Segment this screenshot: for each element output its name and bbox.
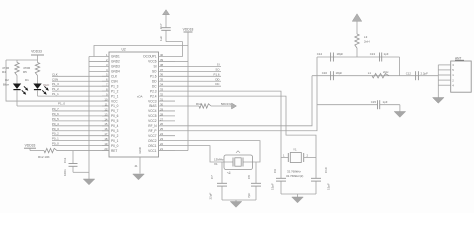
svg-text:P0_4: P0_4 <box>52 122 59 126</box>
wire RF row2 <box>312 75 438 77</box>
svg-text:P1.6: P1.6 <box>150 75 157 79</box>
svg-text:25: 25 <box>160 127 164 131</box>
svg-text:VDD18: VDD18 <box>183 28 194 32</box>
svg-text:VCC: VCC <box>111 99 118 103</box>
svg-text:P1_3: P1_3 <box>52 82 59 86</box>
svg-text:100n: 100n <box>63 169 67 176</box>
svg-text:VCC7: VCC7 <box>148 134 157 138</box>
wire P1_3 <box>52 85 109 87</box>
inductor L1 2nH <box>372 74 389 78</box>
capacitor C15 1pF <box>377 100 379 109</box>
svg-text:GND4: GND4 <box>111 70 120 74</box>
svg-text:11: 11 <box>105 102 108 106</box>
wire pin21 VCC1 to VDD18 rail <box>175 150 188 152</box>
svg-text:VCC5: VCC5 <box>148 114 157 118</box>
capacitor C11 <box>72 151 74 164</box>
svg-text:28: 28 <box>160 112 164 116</box>
resistor R5 470R <box>37 60 39 63</box>
svg-text:P0_2: P0_2 <box>52 132 59 136</box>
svg-text:SI: SI <box>217 62 220 66</box>
capacitor C14 18pF <box>330 53 332 62</box>
wire VDD33 branch <box>6 59 38 61</box>
svg-text:P2.3: P2.3 <box>150 89 157 93</box>
svg-text:RF_N: RF_N <box>148 124 157 128</box>
wire DC <box>175 85 221 87</box>
svg-text:C9: C9 <box>273 169 277 173</box>
svg-text:40: 40 <box>160 53 164 57</box>
svg-text:C13: C13 <box>370 52 376 56</box>
svg-text:P1.6: P1.6 <box>214 72 220 76</box>
svg-text:2nH: 2nH <box>364 40 370 44</box>
svg-text:P0_3: P0_3 <box>52 127 59 131</box>
svg-text:VCC3: VCC3 <box>148 99 157 103</box>
svg-text:26: 26 <box>160 122 164 126</box>
svg-text:P1_2: P1_2 <box>111 89 119 93</box>
wire OSC2 to 13MHz right <box>175 141 260 162</box>
svg-text:OSC2: OSC2 <box>148 139 157 143</box>
svg-text:P0_3: P0_3 <box>111 129 119 133</box>
resistor R4 470R <box>16 60 18 63</box>
ground (13MHz) <box>230 202 242 208</box>
wire RET row <box>30 150 44 152</box>
svg-text:27: 27 <box>160 117 164 121</box>
svg-text:DD: DD <box>152 79 157 83</box>
ground (bottom-left) <box>83 179 95 185</box>
svg-text:GND3: GND3 <box>111 65 120 69</box>
svg-text:P0_6: P0_6 <box>52 112 59 116</box>
svg-text:C10: C10 <box>324 167 328 173</box>
net port arrow (BIAS) <box>232 103 237 109</box>
wire RF_N to matching row2 <box>175 76 312 126</box>
svg-text:18pF: 18pF <box>337 52 344 56</box>
svg-text:P0_5: P0_5 <box>111 119 119 123</box>
IC U2 right pin stubs <box>159 150 176 152</box>
svg-text:33: 33 <box>160 88 164 92</box>
svg-text:15: 15 <box>104 122 108 126</box>
wire SI <box>175 65 221 67</box>
svg-text:L3: L3 <box>364 35 368 39</box>
svg-text:P1_0: P1_0 <box>58 102 65 106</box>
svg-text:CLK: CLK <box>52 72 58 76</box>
wire CLK <box>52 75 109 77</box>
wire pin39 to VDD18 <box>175 60 188 62</box>
svg-text:OSC1: OSC1 <box>148 144 157 148</box>
svg-text:2nH: 2nH <box>383 70 388 74</box>
svg-text:P0_0: P0_0 <box>111 144 119 148</box>
wire 32k gnd rail <box>281 193 316 195</box>
svg-text:P0_2: P0_2 <box>111 134 119 138</box>
svg-text:32: 32 <box>160 93 164 97</box>
svg-text:14: 14 <box>104 117 108 121</box>
svg-text:19: 19 <box>104 142 108 146</box>
svg-text:2.2pF: 2.2pF <box>421 72 429 76</box>
svg-text:16: 16 <box>104 127 108 131</box>
svg-text:P0_1: P0_1 <box>111 139 119 143</box>
ground (32k) <box>292 197 304 203</box>
wire P2.3 to 32k crystal left <box>175 91 281 178</box>
wire VCC rail from VDD33 to pin10 <box>6 60 109 101</box>
svg-text:18: 18 <box>104 137 108 141</box>
svg-text:P0_7: P0_7 <box>111 109 119 113</box>
svg-text:P1_0: P1_0 <box>111 104 119 108</box>
capacitor C7 22pF <box>221 162 223 183</box>
wire OSC1 to 13MHz left <box>175 146 233 162</box>
svg-text:CSN: CSN <box>111 79 118 83</box>
svg-text:xOA: xOA <box>137 94 143 98</box>
svg-text:Y1: Y1 <box>293 148 297 152</box>
capacitor C10 15pF <box>311 177 321 179</box>
ground (ANT) <box>433 98 445 104</box>
svg-text:10: 10 <box>104 97 108 101</box>
svg-text:32.768kHz: 32.768kHz <box>287 169 301 173</box>
wire DD <box>175 80 221 82</box>
wire 13MHz gnd rail <box>222 199 256 201</box>
capacitor C17 1uF <box>165 30 167 41</box>
svg-text:1pF: 1pF <box>384 52 389 56</box>
wire RF_P to matching row1 <box>175 57 317 131</box>
svg-text:56K/1%: 56K/1% <box>221 102 232 106</box>
svg-text:36: 36 <box>160 73 164 77</box>
svg-text:C7: C7 <box>210 175 214 179</box>
svg-text:30: 30 <box>160 102 164 106</box>
svg-text:C17: C17 <box>159 23 163 29</box>
svg-text:U2: U2 <box>122 48 126 52</box>
svg-text:24: 24 <box>160 132 164 136</box>
wires P0_7..P0_0 <box>52 110 109 112</box>
svg-text:P0_6: P0_6 <box>111 114 119 118</box>
svg-text:C16: C16 <box>322 71 328 75</box>
capacitor C13 1pF <box>379 53 381 62</box>
wire CSN <box>52 80 109 82</box>
crystal Y1 32.768kHz <box>281 157 288 159</box>
wire RF row1 <box>317 56 400 58</box>
svg-text:17: 17 <box>104 132 108 136</box>
wire P1.6 <box>175 75 221 77</box>
svg-text:22: 22 <box>160 142 164 146</box>
wire VDD18 to pin1 rail <box>94 46 188 57</box>
ground (IC pad) <box>133 174 145 180</box>
wire GND bus left <box>88 57 90 180</box>
svg-text:DC: DC <box>152 84 157 88</box>
svg-text:38: 38 <box>160 63 164 67</box>
svg-text:P0_4: P0_4 <box>111 124 119 128</box>
svg-text:31: 31 <box>160 97 164 101</box>
svg-text:1pF: 1pF <box>383 100 388 104</box>
svg-text:R11: R11 <box>196 102 201 106</box>
svg-text:C14: C14 <box>317 52 323 56</box>
wire C15 shunt row <box>317 104 377 106</box>
svg-text:GND: GND <box>138 147 142 153</box>
svg-text:37: 37 <box>160 68 164 72</box>
capacitor C9 15pF <box>276 177 286 179</box>
svg-text:SO: SO <box>152 70 157 74</box>
svg-text:13: 13 <box>104 112 108 116</box>
wire C15 to ground <box>399 105 401 112</box>
svg-text:1uF: 1uF <box>159 36 163 41</box>
wire DCOUPL to C17 <box>166 42 182 57</box>
wire D2 to P1_0 <box>16 90 18 106</box>
IC bottom pad pin 41 <box>139 157 141 174</box>
svg-text:18pF: 18pF <box>336 71 343 75</box>
wire ANT ground collector <box>437 65 439 98</box>
svg-text:X1: X1 <box>214 162 218 166</box>
svg-text:P0_0: P0_0 <box>52 142 59 146</box>
svg-text:SI: SI <box>154 65 157 69</box>
svg-text:15pF: 15pF <box>271 183 275 190</box>
svg-text:RED: RED <box>43 83 50 87</box>
crystal X1 13MHz <box>224 155 253 170</box>
svg-text:VCC4: VCC4 <box>148 109 157 113</box>
svg-text:13MHz: 13MHz <box>214 158 224 162</box>
svg-text:P2.4: P2.4 <box>150 94 157 98</box>
svg-text:BIAS: BIAS <box>149 104 156 108</box>
wire VDD18 rail <box>187 32 189 151</box>
capacitor C12 2.2pF <box>415 71 417 80</box>
svg-text:P1_1: P1_1 <box>52 92 59 96</box>
svg-text:P0_7: P0_7 <box>52 107 59 111</box>
svg-text:C8: C8 <box>247 175 251 179</box>
svg-text:D1: D1 <box>25 78 29 82</box>
resistor R11 56K/1% <box>175 105 199 107</box>
svg-text:DC: DC <box>215 82 219 86</box>
svg-text:32.768kHz(2): 32.768kHz(2) <box>286 174 303 178</box>
wire SO <box>175 70 221 72</box>
svg-text:35: 35 <box>160 78 164 82</box>
wire row1 to row2 <box>399 57 401 76</box>
svg-text:R5: R5 <box>23 70 27 74</box>
svg-text:DD: DD <box>215 77 219 81</box>
svg-text:L1: L1 <box>368 71 372 75</box>
capacitor C16 18pF <box>330 71 332 80</box>
svg-text:29: 29 <box>160 107 164 111</box>
svg-text:CSN: CSN <box>52 77 58 81</box>
svg-text:12: 12 <box>104 107 108 111</box>
svg-text:ANT: ANT <box>455 56 461 60</box>
svg-text:VCC1: VCC1 <box>148 149 157 153</box>
power arrow (DCOUPL) <box>163 10 170 15</box>
svg-text:VCC2: VCC2 <box>148 119 157 123</box>
svg-text:P1_1: P1_1 <box>111 94 119 98</box>
inductor L3 2nH <box>355 34 359 48</box>
capacitor C8 7pF <box>255 162 257 183</box>
svg-text:R12 10K: R12 10K <box>38 155 50 159</box>
svg-text:41: 41 <box>135 164 139 168</box>
svg-text:GND1: GND1 <box>111 55 120 59</box>
svg-text:CLK: CLK <box>111 75 118 79</box>
svg-text:RET: RET <box>111 149 117 153</box>
svg-text:23: 23 <box>160 137 164 141</box>
svg-text:C11: C11 <box>63 157 67 163</box>
ground (C15) <box>394 112 406 118</box>
svg-text:VCC6: VCC6 <box>148 60 157 64</box>
svg-text:DCOUPL: DCOUPL <box>143 55 156 59</box>
resistor R12 10K <box>44 148 57 152</box>
wire D1 to P1_1 <box>37 90 39 96</box>
svg-text:R4: R4 <box>2 70 6 74</box>
svg-text:P0_5: P0_5 <box>52 117 59 121</box>
svg-text:P0_1: P0_1 <box>52 137 59 141</box>
svg-text:RF_P: RF_P <box>148 129 156 133</box>
svg-text:21: 21 <box>160 147 164 151</box>
svg-text:39: 39 <box>160 58 164 62</box>
svg-text:C12: C12 <box>406 72 412 76</box>
svg-text:P1_2: P1_2 <box>52 87 59 91</box>
svg-text:7pF: 7pF <box>247 193 251 198</box>
svg-text:VDD33: VDD33 <box>25 144 36 148</box>
svg-text:C15: C15 <box>371 100 377 104</box>
svg-text:GND2: GND2 <box>111 60 120 64</box>
svg-text:15pF: 15pF <box>327 183 331 190</box>
wire P1_2 <box>52 90 109 92</box>
svg-text:34: 34 <box>160 83 164 87</box>
svg-text:20: 20 <box>104 147 108 151</box>
svg-text:P1_3: P1_3 <box>111 84 119 88</box>
wire P2.4 to 32k crystal right <box>175 96 316 178</box>
svg-text:VDD33: VDD33 <box>31 50 42 54</box>
IC U2 body <box>109 52 159 157</box>
IC U2 left pin stubs <box>89 56 109 58</box>
svg-text:22pF: 22pF <box>209 192 213 199</box>
power arrow (RF supply) <box>352 14 362 21</box>
